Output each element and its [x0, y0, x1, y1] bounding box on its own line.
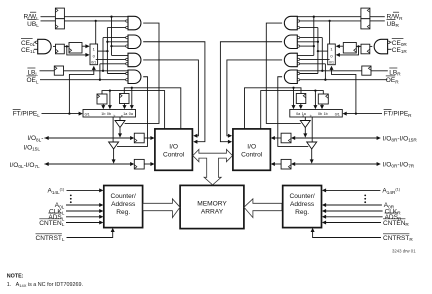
- wire I/O upper byte line right: [295, 136, 381, 140]
- label UBR: [387, 20, 400, 29]
- node LB tap: [102, 70, 104, 72]
- wire CE vertical right: [317, 28, 319, 74]
- wire bypass 0a drop right: [292, 88, 296, 110]
- label R/WR: [387, 12, 404, 21]
- and-gate CE decode right: [374, 39, 387, 54]
- label CLKR: [385, 208, 402, 215]
- wire CE gate out: [53, 45, 56, 47]
- label ADSR: [385, 213, 402, 221]
- svg-text:FT/PIPEL: FT/PIPEL: [13, 111, 41, 118]
- bubble G4 input 2 right: [297, 72, 299, 74]
- and-gate G3 left: [128, 53, 141, 66]
- block Counter/Address Reg right: [283, 186, 322, 228]
- wire LB vertical: [102, 38, 104, 71]
- bus arrow IO controls and memory: [193, 149, 233, 185]
- wire LBR in: [371, 70, 388, 72]
- svg-text:OEL: OEL: [26, 77, 38, 84]
- svg-text:CNTRSTL: CNTRSTL: [36, 235, 65, 242]
- wire R/WR to register: [370, 16, 385, 18]
- register LB right: [362, 66, 371, 75]
- wire feed b from IO-ctl: [102, 91, 165, 129]
- node CE branch: [66, 45, 68, 47]
- wire LBL in: [40, 70, 55, 72]
- svg-text:LBR: LBR: [389, 69, 401, 76]
- label A14L: [47, 187, 65, 194]
- wire R/WL bus: [64, 16, 128, 18]
- bubble G3 input 2 left: [126, 58, 128, 60]
- wire R/WR bus: [297, 16, 361, 18]
- node CE tap G2: [106, 41, 108, 43]
- wire G2 in1 from LB right: [300, 37, 323, 39]
- wire CNTENL: [66, 221, 103, 225]
- wire I/O lower byte line right: [295, 162, 381, 166]
- note 1: [7, 282, 83, 288]
- svg-text:0/1: 0/1: [85, 112, 90, 116]
- wire latch b to bar: [101, 104, 105, 109]
- label FT/PIPEL: [13, 109, 41, 117]
- latch in a left: [130, 159, 144, 169]
- node OE tap right: [324, 79, 326, 81]
- bus arrow left counter to memory: [143, 199, 180, 218]
- bubble G1 input 2 left: [126, 20, 128, 22]
- wire bar to buffer 1: [119, 117, 121, 121]
- node CE vertical join right: [317, 50, 319, 52]
- wire G3 out to IO-ctl right edge: [143, 60, 198, 138]
- wire ADSR: [322, 215, 383, 219]
- svg-text:0/1: 0/1: [91, 61, 96, 65]
- wire CNTRSTL: [67, 228, 115, 238]
- wire to node right: [356, 45, 361, 47]
- wire LB vertical right: [321, 38, 323, 71]
- wire G4 out to tri2 enable: [117, 77, 148, 147]
- node feed b bypass: [109, 89, 111, 91]
- svg-text:1. A14X is a NC for IDT70926: 1. A14X is a NC for IDT709269.: [7, 282, 83, 288]
- node feed a bypass right: [292, 87, 294, 89]
- wire G3 in1 from R/W right: [297, 54, 314, 56]
- wire CE reg to mux-1 right: [336, 44, 344, 48]
- register CE 1st: [56, 44, 65, 54]
- register CE 2nd right: [343, 43, 356, 54]
- node UB bus tap: [95, 20, 97, 22]
- label CE0L: [21, 39, 36, 48]
- bubble G1 input 3 left: [126, 26, 128, 28]
- wire R/W vertical: [111, 17, 113, 56]
- wire latch a to bar: [123, 104, 127, 110]
- latch in b right: [281, 133, 295, 143]
- svg-text:Counter/: Counter/: [289, 193, 314, 200]
- wire ADSL: [66, 215, 103, 219]
- svg-text:CNTRSTR: CNTRSTR: [383, 235, 413, 242]
- node CE tap G2 right: [317, 41, 319, 43]
- register CE 2nd: [69, 43, 82, 54]
- wire CE bypass to mux-0: [67, 46, 90, 57]
- svg-text:Reg.: Reg.: [295, 209, 309, 216]
- wire LB out: [64, 70, 129, 72]
- svg-text:Control: Control: [163, 151, 185, 158]
- drawing number: [392, 248, 416, 253]
- wire buffer2 out: [112, 149, 116, 164]
- wire latch a to bar right: [299, 104, 303, 110]
- wire UB vertical right: [329, 21, 331, 60]
- note heading: [7, 274, 24, 280]
- label LBR: [389, 68, 401, 77]
- bubble CE0 input right: [388, 41, 390, 43]
- wire feed a from IO-ctl: [124, 88, 181, 129]
- wire R/W vertical right: [313, 17, 315, 56]
- wire CE gate out right: [370, 45, 373, 47]
- label A0L: [55, 202, 65, 209]
- wire OE vertical right: [324, 64, 326, 80]
- and-gate G1 right: [284, 16, 297, 30]
- ellipsis address right: [364, 195, 366, 204]
- node RW tap G2: [110, 45, 112, 47]
- wire UBL bus: [64, 20, 126, 22]
- wire G3 in3 from OE right: [300, 63, 326, 65]
- wire to node: [64, 45, 69, 47]
- svg-text:LBL: LBL: [27, 69, 38, 76]
- svg-text:CNTENR: CNTENR: [383, 220, 409, 227]
- label CNTRSTL: [36, 234, 65, 242]
- wire G3 in3 from OE: [100, 63, 126, 65]
- wire CE mux out: [98, 50, 108, 52]
- svg-text:0b: 0b: [318, 112, 322, 116]
- and-gate G3 right: [284, 53, 297, 66]
- wire buffer2 out right: [310, 149, 314, 164]
- svg-text:NOTE:: NOTE:: [7, 274, 24, 280]
- wire A0R: [322, 203, 382, 207]
- wire bar to buffer 2: [112, 117, 114, 142]
- block Memory Array: [180, 185, 244, 228]
- wire A14L: [67, 188, 104, 192]
- bubble CE0 input: [35, 41, 37, 43]
- buffer tri1 left: [115, 121, 125, 128]
- wire FT/PIPEL: [42, 112, 83, 116]
- register pair (R/W, UB) left: [55, 8, 64, 29]
- svg-text:OER: OER: [386, 77, 399, 84]
- label CE0R: [392, 39, 408, 48]
- label LBL: [27, 68, 38, 77]
- wire CLKL: [66, 209, 103, 213]
- wire OE vertical: [99, 64, 101, 80]
- wire latch-in b to IO-ctl right: [271, 136, 281, 140]
- latch pipeline a left: [120, 94, 130, 104]
- node OE tap: [99, 79, 101, 81]
- register pair (R/W, UB) right: [361, 8, 370, 29]
- wire G3 in1 from R/W: [112, 54, 129, 56]
- bubble G1 input 2 right: [297, 20, 299, 22]
- buffer tri2 right: [307, 142, 317, 149]
- wire buffer1 out: [118, 128, 122, 138]
- wire CNTENR: [322, 221, 381, 225]
- and-gate G4 right: [284, 70, 297, 84]
- label CE1L: [21, 47, 36, 54]
- mux FT/PIPE CE select left: [90, 44, 98, 65]
- wire G1 out to tri enable right: [266, 23, 300, 123]
- wire bar to buffer 2 right: [311, 117, 313, 142]
- block I/O Control left: [155, 129, 193, 170]
- label FT/PIPER: [384, 109, 413, 117]
- wire latch-in a to IO-ctl: [144, 162, 154, 166]
- svg-text:I/O: I/O: [247, 143, 256, 150]
- svg-text:1b: 1b: [101, 112, 105, 116]
- node feed a bypass: [131, 87, 133, 89]
- svg-text:ARRAY: ARRAY: [201, 209, 224, 216]
- wire CE1L: [34, 48, 38, 50]
- wire G2 in3 from R/W right: [300, 45, 314, 47]
- svg-text:Reg.: Reg.: [116, 209, 130, 216]
- bubble G3 input 3 left: [126, 63, 128, 65]
- wire G3 in2 from UB: [96, 58, 126, 60]
- wire G2 in2 from CE: [107, 41, 128, 43]
- and-gate CE decode left: [38, 39, 51, 54]
- wire R/WL to register: [41, 16, 56, 18]
- buffer tri2 left: [109, 142, 119, 149]
- wire UBL to register: [41, 20, 56, 22]
- svg-text:I/O8R-I/O15R: I/O8R-I/O15R: [383, 135, 418, 142]
- svg-text:A14R(1): A14R(1): [382, 187, 400, 194]
- wire mux select up: [69, 66, 95, 114]
- svg-text:CNTENL: CNTENL: [39, 220, 64, 227]
- latch pipeline b left: [97, 94, 107, 104]
- svg-text:I/O15L: I/O15L: [24, 144, 41, 151]
- node feed b bypass right: [314, 89, 316, 91]
- wire latch-in a to IO-ctl right: [271, 162, 281, 166]
- svg-text:CE1R: CE1R: [392, 47, 408, 54]
- wire bypass 0a drop: [130, 88, 134, 110]
- wire A0L: [66, 203, 103, 207]
- svg-text:I/O0L-I/O7L: I/O0L-I/O7L: [10, 162, 40, 169]
- wire G2 in3 from R/W: [112, 45, 126, 47]
- wire bar to buffer 1 right: [304, 117, 306, 121]
- wire feed a from IO-ctl right: [245, 88, 302, 129]
- wire G3 in2 from UB right: [300, 58, 330, 60]
- bubble G2 input 3 right: [297, 45, 299, 47]
- latch pipeline a right: [296, 94, 306, 104]
- node RW tap G2 right: [313, 45, 315, 47]
- register LB left: [54, 66, 63, 75]
- bubble G2 input 1 right: [297, 36, 299, 38]
- wire latch b to bar right: [320, 104, 324, 109]
- wire CLKR: [322, 209, 383, 213]
- wire G4 in2 from CE right: [300, 73, 318, 75]
- svg-text:Control: Control: [241, 151, 263, 158]
- label CNTENL: [39, 219, 64, 227]
- node UB bus tap right: [328, 20, 330, 22]
- wire mux select up right: [330, 66, 356, 114]
- wire FT/PIPER: [343, 112, 383, 116]
- wire G2 in2 from CE right: [297, 41, 318, 43]
- wire CE bypass to mux-0 right: [336, 46, 359, 57]
- svg-text:FT/PIPER: FT/PIPER: [384, 111, 413, 118]
- svg-text:UBR: UBR: [387, 21, 400, 28]
- bubble G3 input 2 right: [297, 58, 299, 60]
- wire G3 out to IO-ctl left edge right: [227, 60, 282, 138]
- wire OER bus: [299, 79, 387, 81]
- block Counter/Address Reg left: [104, 186, 143, 228]
- node CE branch right: [357, 45, 359, 47]
- node FT/PIPE tap right: [355, 112, 357, 114]
- svg-text:Address: Address: [111, 201, 136, 208]
- svg-text:0b: 0b: [107, 112, 111, 116]
- label OEL: [26, 76, 38, 84]
- wire G4 in2 from CE: [107, 73, 125, 75]
- wire I/O lower byte line: [45, 162, 131, 166]
- wire CE0L: [34, 41, 36, 43]
- wire UBR bus: [299, 20, 361, 22]
- label A0R: [384, 202, 395, 209]
- wire latch-in b to IO-ctl: [144, 136, 154, 140]
- svg-text:3243 drw 01: 3243 drw 01: [392, 248, 416, 253]
- svg-text:0/1: 0/1: [329, 61, 334, 65]
- bubble G2 input 3 left: [126, 45, 128, 47]
- label ADSL: [48, 213, 64, 221]
- register CE 1st right: [361, 44, 370, 54]
- mux bar FT/PIPE right: [290, 110, 343, 118]
- wire G2 out to IO-ctl left edge right: [220, 42, 282, 144]
- label I/O8L-I/O15L: [24, 135, 44, 151]
- wire G1 in3 from CE right: [300, 27, 318, 29]
- wire A14R: [322, 188, 381, 192]
- node R/W bus tap: [110, 16, 112, 18]
- bubble G4 input 3 left: [126, 79, 128, 81]
- block I/O Control right: [233, 129, 271, 170]
- label I/O0R-I/O7R: [383, 161, 415, 168]
- wire CE mux out right: [318, 50, 328, 52]
- wire G4 out to tri2 enable right: [278, 77, 309, 147]
- svg-text:Address: Address: [290, 201, 315, 208]
- wire bypass 0b drop right: [313, 91, 317, 110]
- wire CNTRSTR: [311, 228, 381, 238]
- mux FT/PIPE CE select right: [328, 44, 336, 65]
- latch pipeline b right: [318, 94, 328, 104]
- and-gate G2 left: [128, 35, 141, 49]
- svg-text:1b: 1b: [324, 112, 328, 116]
- label R/WL: [24, 12, 40, 21]
- wire buffer1 out right: [303, 128, 307, 138]
- node FT/PIPE tap: [68, 112, 70, 114]
- svg-text:CE1L: CE1L: [21, 47, 36, 54]
- label CLKL: [49, 208, 65, 215]
- wire LB out right: [297, 70, 362, 72]
- and-gate G1 left: [128, 16, 141, 30]
- wire G2 in1 from LB: [103, 37, 126, 39]
- wire UBR to register: [370, 20, 385, 22]
- svg-text:I/O: I/O: [169, 143, 178, 150]
- node LB tap right: [321, 70, 323, 72]
- and-gate G2 right: [284, 35, 297, 49]
- svg-text:Counter/: Counter/: [111, 193, 136, 200]
- bubble G3 input 3 right: [297, 63, 299, 65]
- wire G2 out to IO-ctl right edge: [143, 42, 205, 144]
- label I/O0L-I/O7L: [10, 162, 40, 169]
- wire CE vertical: [106, 28, 108, 74]
- svg-text:MEMORY: MEMORY: [197, 201, 227, 208]
- ellipsis address left: [70, 195, 72, 204]
- wire CE reg to mux-1: [82, 44, 90, 48]
- latch in a right: [281, 159, 295, 169]
- wire UB vertical: [95, 21, 97, 60]
- svg-text:UBL: UBL: [27, 21, 39, 28]
- svg-text:A14L(1): A14L(1): [47, 187, 65, 194]
- label CNTRSTR: [383, 234, 413, 242]
- buffer tri1 right: [300, 121, 310, 128]
- node R/W bus tap right: [313, 16, 315, 18]
- mux bar FT/PIPE left: [83, 110, 136, 118]
- node CE vertical join: [106, 50, 108, 52]
- label A14R: [382, 187, 400, 194]
- latch in b left: [130, 133, 144, 143]
- label OER: [386, 76, 399, 84]
- wire G1 out to tri enable: [125, 23, 159, 123]
- bubble G2 input 1 left: [126, 36, 128, 38]
- bubble G4 input 2 left: [126, 72, 128, 74]
- wire I/O upper byte line: [45, 136, 131, 140]
- label CE1R: [392, 47, 408, 54]
- label I/O8R-I/O15R: [383, 135, 418, 142]
- bus arrow right counter to memory: [244, 199, 282, 218]
- bubble G1 input 3 right: [297, 26, 299, 28]
- svg-text:0/1: 0/1: [335, 112, 340, 116]
- label CNTENR: [383, 219, 409, 227]
- wire OEL bus: [40, 79, 126, 81]
- svg-text:I/O0R-I/O7R: I/O0R-I/O7R: [383, 161, 415, 168]
- label UBL: [27, 20, 39, 29]
- svg-text:I/O8L-: I/O8L-: [27, 135, 43, 142]
- wire bypass 0b drop: [108, 91, 112, 110]
- wire CE1R: [388, 48, 392, 50]
- wire feed b from IO-ctl right: [261, 91, 324, 129]
- wire G1 in3 from CE: [107, 27, 125, 29]
- wire CE0R: [390, 41, 392, 43]
- bubble G4 input 3 right: [297, 79, 299, 81]
- and-gate G4 left: [128, 70, 141, 84]
